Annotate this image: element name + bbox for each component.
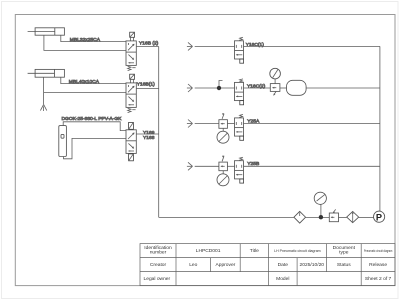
valve V2 flow arrow position b xyxy=(128,97,134,106)
title block texts xyxy=(144,245,392,282)
accumulator/receiver xyxy=(287,80,307,95)
spring of valve V2 xyxy=(128,108,131,112)
wire V2 right port to bus xyxy=(136,88,158,90)
wire regulator R2 to accumulator xyxy=(280,87,287,89)
valve W2 Y16C(2) xyxy=(235,79,244,105)
solenoid coil bottom of valve Y168 xyxy=(129,154,134,161)
svg-text:Y16B (2): Y16B (2) xyxy=(139,41,159,47)
manifold wire bottom xyxy=(159,216,294,218)
svg-text:Release: Release xyxy=(369,262,387,268)
svg-text:Pneumatic circuit diagram: Pneumatic circuit diagram xyxy=(364,249,393,253)
title block xyxy=(140,244,395,286)
wire row2 left to valve Y16C(2) xyxy=(195,87,235,89)
svg-text:MBL40x10CA: MBL40x10CA xyxy=(69,79,100,85)
svg-text:Y16C(1): Y16C(1) xyxy=(246,42,265,48)
pressure gauge G4 xyxy=(217,174,229,186)
svg-text:Model: Model xyxy=(276,276,289,282)
wire filter to junction xyxy=(306,216,330,218)
exhaust tick of valve V2 xyxy=(132,109,135,111)
valve V1 flow arrow position b xyxy=(128,55,134,64)
svg-text:Y16C(2): Y16C(2) xyxy=(247,83,266,89)
right bus down to source xyxy=(379,46,381,211)
wire C1 port B to valve Y16B(2) top port xyxy=(61,35,126,41)
pressure gauge G3 xyxy=(217,131,229,143)
exhaust arrow row 1 xyxy=(187,42,193,50)
spring of valve V1 xyxy=(128,66,131,70)
svg-text:Legal owner: Legal owner xyxy=(144,276,171,282)
pressure gauge G2 xyxy=(270,68,281,79)
wire row3 to right bus xyxy=(244,123,380,125)
valve W3 Y25A xyxy=(235,114,244,140)
regulator R4 with adjust arrow xyxy=(219,156,228,171)
stem regulator R3 to gauge G3 xyxy=(222,128,224,131)
water separator F2 xyxy=(347,212,359,223)
junction dot with gauge tap xyxy=(319,204,323,219)
wire regulator R4 to valve W4 xyxy=(227,165,234,167)
wire V1 right port to bus xyxy=(136,46,158,48)
wire accumulator to right bus xyxy=(306,87,380,89)
svg-text:DGOK-25-880-L PPV-A-GK: DGOK-25-880-L PPV-A-GK xyxy=(62,116,123,122)
wire separator to source xyxy=(359,216,374,218)
wire C2 port A down with branch to valve Y16B(1) xyxy=(44,77,126,104)
svg-text:MBL32x25CA: MBL32x25CA xyxy=(70,37,101,43)
svg-text:P: P xyxy=(376,212,382,222)
wire C1 port A to valve Y16B(2) lower port xyxy=(44,35,126,50)
pressure gauge G5 xyxy=(314,192,326,204)
stem gauge G2 to regulator R2 xyxy=(274,79,276,84)
valve V3 flow arrow position b xyxy=(128,143,134,151)
filter F1 xyxy=(294,211,306,223)
wire box to separator xyxy=(339,216,347,218)
svg-text:Leo: Leo xyxy=(189,262,197,268)
valve W4 Y25B xyxy=(235,157,244,183)
solenoid coil top of valve Y169 xyxy=(129,122,134,129)
svg-text:number: number xyxy=(150,250,167,256)
wire gripper top port to valve Y169 xyxy=(63,122,126,131)
valve V2 Y16B(1) body xyxy=(126,83,136,108)
svg-text:Status: Status xyxy=(337,262,351,268)
svg-text:Y168: Y168 xyxy=(143,135,155,141)
svg-text:LH Pneumatic circuit diagram: LH Pneumatic circuit diagram xyxy=(274,249,321,253)
svg-text:type: type xyxy=(339,250,349,256)
cylinder C1 MBL32x25CA xyxy=(28,28,65,35)
svg-text:Y16B(1): Y16B(1) xyxy=(137,81,155,87)
solenoid coil of valve Y16B(1) xyxy=(130,74,135,83)
gripper DGOK-25-880-L xyxy=(59,126,67,157)
valve V2 flow arrow position a xyxy=(128,85,135,92)
valve V1 Y16B(2) body xyxy=(126,41,136,66)
supply bus left xyxy=(158,47,160,218)
valve W1 Y16C(1) xyxy=(235,37,244,63)
wire row1 to right bus xyxy=(244,45,380,47)
svg-text:LHPCD001: LHPCD001 xyxy=(196,248,221,254)
solenoid coil of valve Y16B(2) xyxy=(130,32,135,41)
wire gripper bottom port to valve Y168 xyxy=(64,138,127,158)
wire row3 left to regulator R3 xyxy=(195,123,219,125)
valve V1 flow arrow position a xyxy=(128,43,135,50)
exhaust to atmosphere under C2 xyxy=(40,104,46,111)
wire row1 left to valve Y16C(1) xyxy=(195,45,235,47)
wire row4 to right bus xyxy=(244,165,380,167)
wire valve W2 to regulator xyxy=(244,87,271,89)
pressure source P xyxy=(374,211,385,222)
exhaust arrow row 4 xyxy=(187,162,193,170)
stem regulator R4 to gauge G4 xyxy=(222,171,224,174)
svg-text:Sheet 2 of 7: Sheet 2 of 7 xyxy=(365,276,392,282)
shutoff/regulator box B5 xyxy=(329,209,338,221)
svg-text:Title: Title xyxy=(250,248,259,254)
svg-text:Y169: Y169 xyxy=(143,130,155,136)
wire regulator R3 to valve W3 xyxy=(227,123,234,125)
svg-text:2025/10/20: 2025/10/20 xyxy=(300,262,325,268)
exhaust arrow row 2 xyxy=(187,84,193,92)
wire row4 left to regulator R4 xyxy=(195,165,219,167)
regulator R2 xyxy=(270,84,280,96)
svg-text:Date: Date xyxy=(278,262,289,268)
junction with plug row 2 xyxy=(217,81,223,91)
wire V3 right port to bus xyxy=(136,133,158,135)
exhaust tick of valve V1 xyxy=(132,67,135,69)
wire C2 port B to valve Y16B(1) xyxy=(61,77,126,83)
regulator R3 with adjust arrow xyxy=(219,113,228,128)
valve V3 Y169/Y168 body xyxy=(126,130,136,154)
cylinder C2 MBL40x10CA xyxy=(28,69,65,77)
svg-text:Approver: Approver xyxy=(215,262,235,268)
svg-text:Creator: Creator xyxy=(150,262,167,268)
exhaust arrow row 3 xyxy=(187,120,193,128)
valve V3 flow arrow position a xyxy=(128,133,135,140)
